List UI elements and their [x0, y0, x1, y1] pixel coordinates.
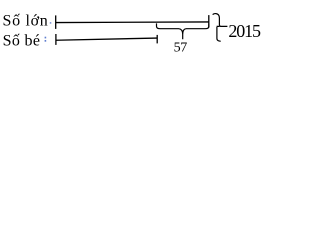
- left end tick of "Số bé" line: [55, 34, 57, 45]
- horizontal underbrace for difference 57: [157, 23, 209, 39]
- right end tick of "Số bé" line: [156, 35, 158, 44]
- svg-text:57: 57: [174, 40, 188, 55]
- svg-text:Số bé: Số bé: [3, 33, 41, 50]
- right brace for total: [213, 14, 228, 42]
- svg-text:Số lớn: Số lớn: [3, 13, 49, 30]
- left end tick of "Số lớn" line: [55, 15, 57, 29]
- colon after "Số bé": [45, 37, 47, 39]
- colon after "Số lớn": [50, 22, 52, 24]
- svg-text:2015: 2015: [228, 21, 261, 41]
- segment line "Số bé": [56, 38, 157, 40]
- segment line "Số lớn": [56, 21, 209, 24]
- right end tick of "Số lớn" line: [208, 15, 210, 27]
